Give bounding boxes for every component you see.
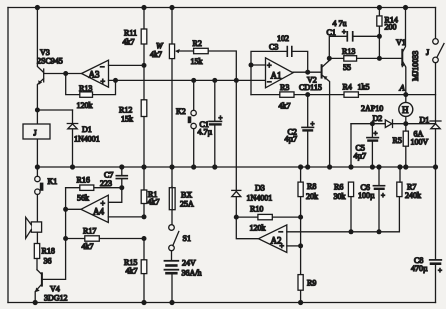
diode D2 2AP10: [351, 104, 406, 128]
node A2 + junction: [298, 243, 303, 248]
node R3/R4 junction: [305, 92, 310, 97]
svg-text:−: −: [100, 63, 105, 72]
svg-text:−: −: [267, 78, 272, 87]
wire H line to right rail: [406, 123, 436, 125]
transistor V1 MJ10033: [396, 8, 420, 95]
svg-text:R18: R18: [42, 247, 55, 256]
switch K1: [35, 167, 58, 222]
svg-text:120k: 120k: [250, 224, 266, 233]
svg-text:1k5: 1k5: [358, 83, 370, 92]
svg-text:120k: 120k: [77, 101, 93, 110]
resistor R13 55 (V1 base): [329, 47, 402, 72]
node A4 minus / R1 junction: [142, 214, 147, 219]
svg-text:R13: R13: [342, 47, 355, 56]
resistor R2 15k: [179, 39, 236, 80]
wire common bus: [37, 166, 435, 168]
svg-text:55: 55: [343, 63, 351, 72]
svg-text:2SC945: 2SC945: [37, 57, 63, 66]
wire C7 node to A4 + input: [108, 188, 122, 203]
svg-text:C3: C3: [269, 43, 278, 52]
svg-text:30k: 30k: [334, 192, 346, 201]
node A3 minus / R11-R12 junction: [142, 63, 147, 68]
node C5 top junction: [370, 121, 375, 126]
svg-text:4k7: 4k7: [279, 102, 291, 111]
op-amp A3: [82, 60, 109, 87]
node A: [403, 92, 408, 97]
wire V4 base: [42, 188, 66, 280]
wire A4 inverting input: [108, 216, 144, 218]
svg-text:1N4001: 1N4001: [74, 135, 100, 144]
svg-text:4k7: 4k7: [148, 198, 160, 207]
node bus junctions: [35, 164, 438, 169]
svg-text:223: 223: [100, 179, 112, 188]
svg-text:25A: 25A: [180, 200, 194, 209]
switch S1: [169, 225, 191, 251]
svg-text:A: A: [399, 83, 406, 93]
svg-text:D3: D3: [255, 184, 265, 193]
node (37.4,110): [35, 108, 40, 113]
potentiometer W 4k7: [150, 8, 180, 187]
diode D1 1N4001 (left): [67, 110, 99, 167]
meter H: [399, 95, 413, 124]
node A1 output junction: [305, 70, 310, 75]
svg-text:J: J: [426, 48, 429, 57]
node A4 output junction: [63, 207, 68, 212]
capacitor C5 4u7: [354, 124, 379, 167]
svg-text:D1: D1: [82, 125, 92, 134]
node long-line / R2 vertical junction: [234, 78, 239, 83]
svg-text:A1: A1: [271, 71, 282, 81]
wire A1 + input: [251, 64, 266, 66]
svg-text:4k7: 4k7: [123, 38, 135, 47]
svg-text:100V: 100V: [411, 138, 429, 147]
svg-text:J: J: [34, 129, 37, 138]
svg-text:R6: R6: [334, 183, 343, 192]
svg-text:2AP10: 2AP10: [361, 104, 383, 113]
svg-text:D1: D1: [420, 116, 430, 125]
svg-text:H: H: [402, 105, 409, 115]
wire V3 base to A3 output: [44, 73, 82, 75]
switch J (right rail): [426, 39, 444, 63]
svg-text:R13: R13: [79, 84, 92, 93]
resistor R14 200: [377, 8, 398, 59]
svg-text:R3: R3: [280, 83, 289, 92]
resistor R8 20k: [298, 167, 318, 246]
wire A-node rail (R4 to right rail): [308, 94, 436, 96]
node C6 bottom junction: [377, 229, 382, 234]
node R6 bottom junction: [349, 229, 354, 234]
svg-text:R2: R2: [193, 39, 202, 48]
battery 24V 36A/h: [165, 251, 202, 303]
svg-text:4µ7: 4µ7: [285, 135, 298, 144]
resistor R6 30k: [334, 124, 354, 232]
svg-text:R10: R10: [250, 205, 263, 214]
svg-text:R16: R16: [77, 176, 90, 185]
op-amp A2: [236, 217, 286, 252]
node V3 base / A3 out junction: [63, 71, 68, 76]
diode D1 6A 100V (right rail): [411, 116, 442, 147]
svg-text:24V: 24V: [182, 259, 196, 268]
resistor R11 4k7: [123, 8, 147, 66]
svg-text:470µ: 470µ: [411, 264, 428, 273]
wire A3 non-inverting input long line to A1: [109, 79, 266, 81]
wire bottom rail: [8, 302, 436, 304]
svg-text:4µ7: 4µ7: [354, 152, 367, 161]
transistor V3 2SC945: [37, 8, 63, 111]
wire V3 emitter node to D1: [37, 109, 72, 111]
relay J box: [23, 110, 50, 167]
svg-text:4k7: 4k7: [150, 50, 162, 59]
node bottom rail junctions: [33, 300, 304, 305]
svg-text:56k: 56k: [77, 194, 89, 203]
capacitor C3 102 (A1 feedback): [251, 34, 308, 95]
switch K2: [176, 78, 196, 167]
svg-text:36A/h: 36A/h: [182, 269, 202, 278]
svg-text:15k: 15k: [121, 115, 133, 124]
capacitor C2 4u7: [285, 95, 315, 167]
svg-text:+: +: [280, 242, 285, 251]
capacitor C1 4.7u (top, at V1): [327, 19, 380, 58]
resistor R4 1k5: [343, 83, 370, 98]
wire A2 non-inverting input: [287, 245, 301, 247]
resistor R1 4k7: [141, 167, 159, 217]
svg-text:S1: S1: [183, 234, 191, 243]
svg-text:K2: K2: [176, 107, 186, 116]
svg-text:1N4001: 1N4001: [247, 194, 273, 203]
resistor R16 56k (A4 feedback): [66, 176, 122, 203]
resistor R17 4k7: [63, 227, 146, 252]
svg-text:+: +: [342, 28, 346, 36]
svg-text:+: +: [438, 267, 442, 275]
resistor R18 36: [34, 244, 55, 270]
wire R2 node down to D3 (crosses bus): [235, 80, 237, 190]
diode D3 1N4001: [232, 184, 272, 218]
svg-text:R12: R12: [119, 106, 132, 115]
wire A2 inverting line to R7: [287, 197, 400, 232]
node top rail junctions: [35, 5, 408, 10]
svg-text:4.7µ: 4.7µ: [198, 128, 213, 137]
capacitor C8 470u (right rail): [411, 256, 442, 275]
wire A3 inverting input line: [109, 64, 144, 66]
resistor R15 4k7: [124, 239, 147, 303]
svg-text:R8: R8: [307, 182, 316, 191]
svg-text:BX: BX: [181, 191, 192, 200]
wire top rail: [8, 7, 436, 9]
svg-text:4k7: 4k7: [126, 267, 138, 276]
svg-text:−: −: [279, 228, 284, 237]
svg-text:+: +: [267, 61, 272, 70]
svg-text:V1: V1: [396, 38, 406, 47]
svg-text:+: +: [101, 199, 106, 208]
svg-text:4 7u: 4 7u: [333, 19, 347, 28]
svg-text:200: 200: [385, 23, 397, 32]
svg-text:240k: 240k: [405, 191, 421, 200]
svg-text:36: 36: [44, 257, 52, 266]
svg-text:A4: A4: [93, 207, 104, 217]
svg-text:R9: R9: [307, 279, 316, 288]
svg-text:15k: 15k: [191, 57, 203, 66]
svg-text:20k: 20k: [306, 192, 318, 201]
svg-text:D2: D2: [373, 114, 383, 123]
svg-text:K1: K1: [48, 177, 58, 186]
resistor R9: [298, 246, 316, 303]
resistor R3 4k7: [251, 83, 308, 111]
node R13/R14 junction: [377, 56, 382, 61]
resistor R12 15k: [119, 65, 147, 167]
svg-text:R5: R5: [393, 136, 402, 145]
capacitor C7 223: [100, 167, 127, 188]
svg-text:100µ: 100µ: [358, 191, 375, 200]
wire A1 output to V2 base: [293, 71, 322, 73]
svg-text:MJ10033: MJ10033: [411, 51, 420, 81]
node A1 feedback junction: [249, 63, 254, 68]
op-amp A1: [266, 58, 294, 88]
svg-text:CD115: CD115: [299, 83, 322, 92]
wire left rail: [7, 8, 9, 303]
node H bottom junction: [403, 121, 408, 126]
resistor R13 120k (A3 feedback): [66, 74, 118, 111]
transistor V2 CD115: [299, 61, 330, 168]
svg-text:R17: R17: [83, 227, 96, 236]
loudspeaker: [26, 217, 42, 243]
svg-text:R4: R4: [343, 83, 352, 92]
svg-text:V4: V4: [50, 285, 60, 294]
svg-text:+: +: [101, 77, 106, 86]
svg-text:102: 102: [277, 34, 289, 43]
capacitor C1 4.7u (at K2): [198, 78, 223, 167]
node V2 collector junction: [327, 56, 332, 61]
svg-text:4k7: 4k7: [82, 242, 94, 251]
transistor V4 3DG12: [35, 270, 67, 303]
node C1/R14 junction: [377, 34, 382, 39]
wire A4 output: [66, 208, 81, 210]
resistor R5: [393, 124, 409, 167]
svg-text:R11: R11: [124, 29, 137, 38]
resistor R7 240k: [397, 167, 421, 200]
svg-text:+: +: [311, 120, 315, 128]
svg-text:A3: A3: [89, 70, 100, 80]
fuse BX 25A: [169, 187, 194, 225]
svg-text:+: +: [219, 114, 223, 122]
svg-text:+: +: [374, 130, 378, 138]
resistor R10 120k: [234, 205, 303, 233]
svg-text:+: +: [381, 192, 385, 200]
node C7/R16 junction: [119, 185, 124, 190]
svg-text:3DG12: 3DG12: [44, 294, 68, 303]
capacitor C6 100u: [358, 167, 385, 232]
op-amp A4: [81, 195, 108, 222]
svg-text:C1: C1: [327, 28, 336, 37]
wire right rail: [435, 8, 437, 303]
